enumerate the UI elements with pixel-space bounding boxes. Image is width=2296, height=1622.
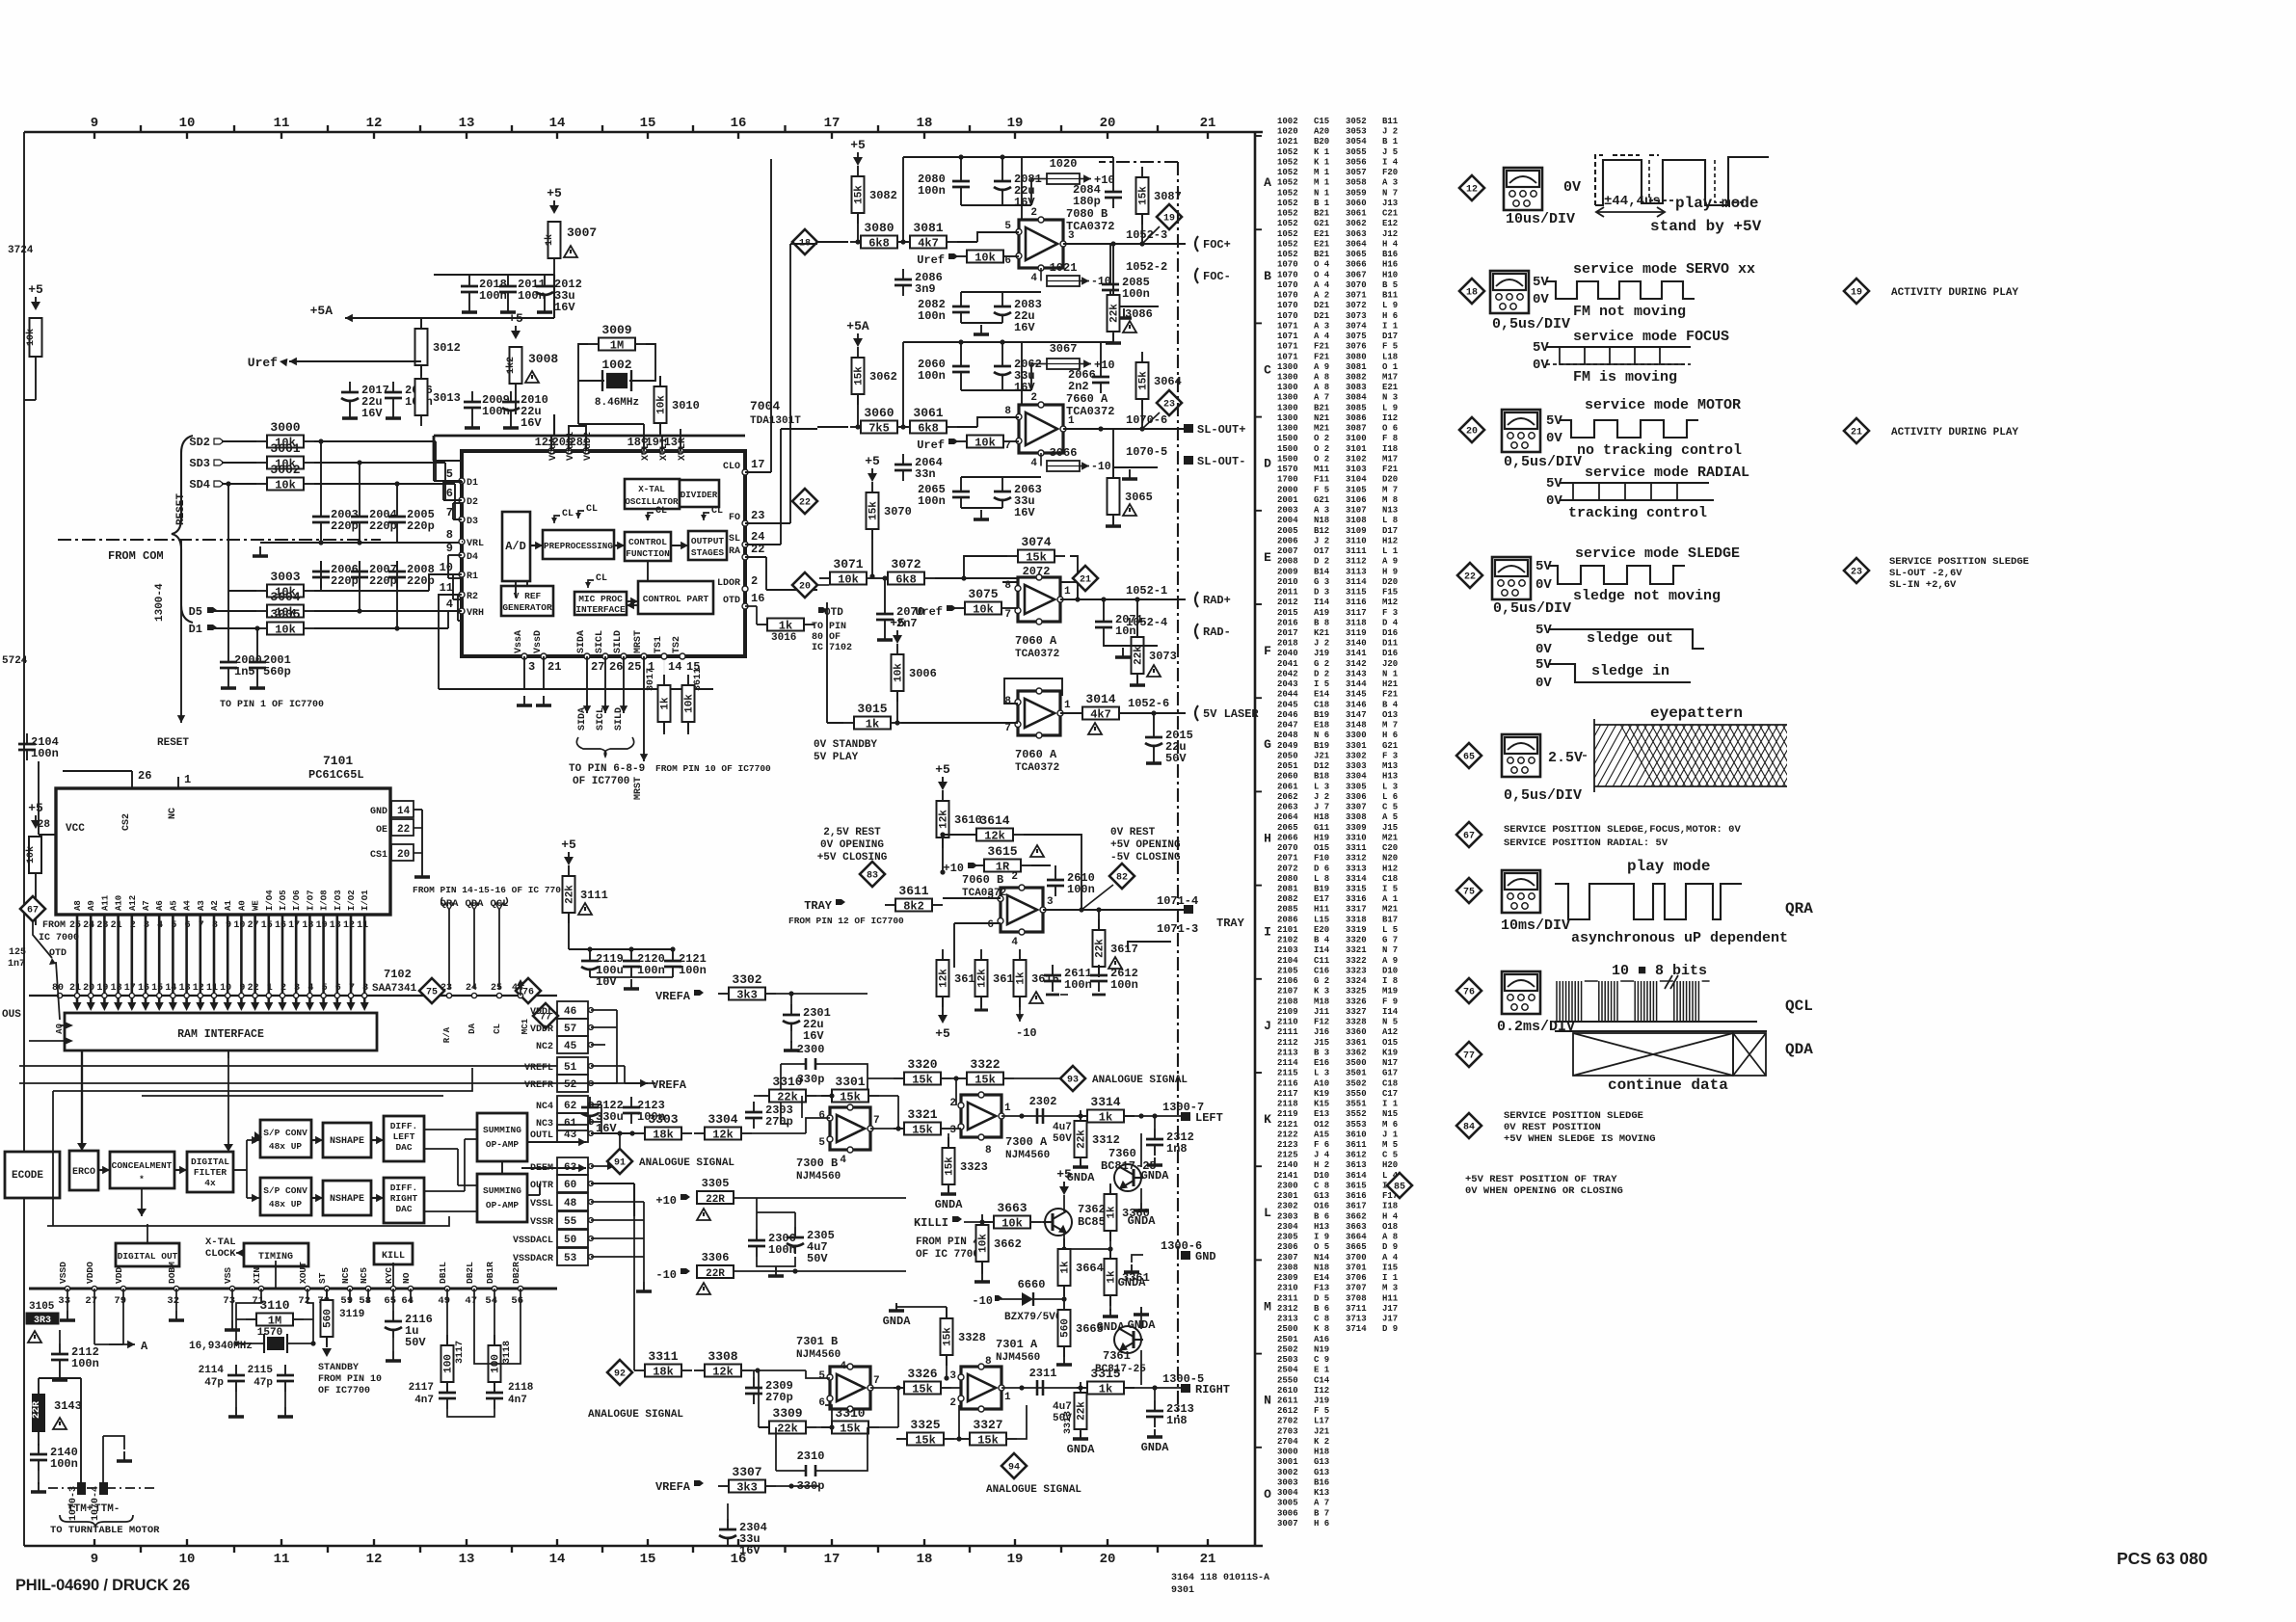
svg-text:16V: 16V [521,416,542,430]
svg-text:E18: E18 [1314,721,1329,731]
svg-text:8: 8 [985,1356,992,1368]
svg-text:220p: 220p [407,574,435,588]
svg-text:9: 9 [91,1552,98,1567]
capacitor 2016 100n [385,382,433,409]
svg-text:25: 25 [627,660,641,674]
svg-text:6: 6 [987,919,994,931]
svg-text:1070: 1070 [1277,280,1298,290]
svg-text:D 6: D 6 [1314,864,1329,873]
resistor 3013 vertical [415,368,461,426]
svg-text:OUTL: OUTL [530,1130,553,1141]
svg-text:G13: G13 [1314,1468,1329,1477]
svg-text:0,5us/DIV: 0,5us/DIV [1492,316,1570,332]
svg-text:5V LASER: 5V LASER [1203,707,1259,721]
diamond 91 analogue signal [607,1130,734,1174]
svg-text:2116: 2116 [1277,1078,1298,1088]
svg-text:A 2: A 2 [1314,291,1329,301]
svg-text:DIGITAL OUT: DIGITAL OUT [118,1251,178,1262]
svg-text:K13: K13 [1314,1488,1329,1498]
svg-text:VDDO: VDDO [85,1262,95,1284]
block NSHAPE left [323,1123,371,1157]
svg-text:A 5: A 5 [1382,812,1398,822]
svg-text:3082: 3082 [1346,373,1367,383]
svg-text:3113: 3113 [1346,567,1367,576]
svg-text:3006: 3006 [909,667,937,680]
svg-text:3327: 3327 [1346,1007,1367,1017]
svg-text:7660 A: 7660 A [1066,392,1108,406]
capacitor 2612 100n [1060,965,1138,995]
svg-text:B 6: B 6 [1314,1211,1329,1221]
svg-text:85: 85 [1394,1183,1405,1193]
block RAM INTERFACE [65,1013,377,1050]
svg-text:2125: 2125 [1277,1151,1298,1160]
resistor 3002 10k [256,463,314,492]
DAC block wires [19,1058,617,1289]
svg-text:2123: 2123 [1277,1140,1298,1150]
svg-text:23: 23 [751,509,764,522]
svg-text:OUS: OUS [2,1009,21,1021]
svg-text:1070-5: 1070-5 [1126,445,1167,459]
svg-text:N 1: N 1 [1382,670,1399,679]
svg-text:3305: 3305 [1346,782,1367,791]
capacitor ('2065', '2063') bottom caps [918,481,970,508]
svg-text:+10: +10 [655,1194,677,1208]
svg-text:I/O1: I/O1 [360,890,370,911]
svg-text:3300: 3300 [1346,731,1367,740]
svg-text:3075: 3075 [1346,332,1367,341]
svg-text:3k3: 3k3 [736,989,758,1002]
svg-text:1002: 1002 [1277,117,1298,126]
svg-text:1300: 1300 [1277,424,1298,434]
svg-text:VSSL: VSSL [530,1199,553,1210]
svg-text:F21: F21 [1314,342,1330,352]
svg-text:10k: 10k [974,252,996,265]
svg-text:3321: 3321 [1346,945,1367,955]
wires 7301A out [1001,1385,1186,1390]
svg-text:1570: 1570 [1277,465,1298,474]
svg-text:VSS: VSS [223,1267,233,1284]
svg-text:3106: 3106 [1346,495,1367,505]
svg-text:5: 5 [818,1137,825,1149]
svg-text:3115: 3115 [1346,588,1367,598]
svg-text:D10: D10 [1314,1171,1329,1181]
svg-text:7080 B: 7080 B [1066,207,1108,221]
svg-text:1070: 1070 [1277,291,1298,301]
svg-text:1k: 1k [866,718,879,731]
svg-text:O 4: O 4 [1314,260,1330,270]
svg-text:3105: 3105 [29,1301,55,1313]
connector 1300-7 LEFT [1152,1101,1222,1125]
svg-text:46: 46 [564,1006,576,1018]
svg-text:3056: 3056 [1346,158,1367,168]
svg-text:5724: 5724 [2,655,28,667]
svg-text:A5: A5 [169,900,178,911]
capacitor 2305 4u7 50V [757,1198,906,1276]
svg-text:H16: H16 [1382,260,1398,270]
svg-text:1500: 1500 [1277,455,1298,465]
svg-text:2502: 2502 [1277,1344,1298,1354]
svg-text:10k: 10k [1001,1217,1023,1231]
svg-text:D11: D11 [1382,639,1399,649]
svg-text:48x UP: 48x UP [269,1141,303,1152]
svg-text:A 1: A 1 [1382,894,1399,904]
svg-text:1k: 1k [1099,1383,1112,1396]
svg-text:3012: 3012 [433,341,461,355]
svg-text:PREPROCESSING: PREPROCESSING [544,541,613,551]
svg-text:J 2: J 2 [1382,127,1398,137]
svg-text:3072: 3072 [1346,301,1367,310]
svg-text:3053: 3053 [1346,127,1367,137]
svg-text:28: 28 [570,436,583,449]
svg-text:2704: 2704 [1277,1437,1298,1447]
svg-text:SERVICE POSITION SLEDGE,FOCUS,: SERVICE POSITION SLEDGE,FOCUS,MOTOR: 0V [1504,824,1741,836]
svg-text:±44,4us: ±44,4us [1604,194,1661,209]
svg-text:DB2R: DB2R [511,1262,521,1284]
wire input focus [817,241,848,243]
driver cluster RADIAL [792,454,1231,685]
svg-text:ANALOGUE SIGNAL: ANALOGUE SIGNAL [1092,1075,1188,1086]
svg-text:OTD: OTD [723,596,740,606]
svg-text:L15: L15 [1314,915,1329,924]
svg-text:80 OF: 80 OF [812,632,841,643]
svg-text:65: 65 [384,1295,396,1307]
svg-text:21: 21 [1200,116,1216,131]
svg-text:G 3: G 3 [1314,577,1329,587]
power +5A arrow [310,304,554,322]
op-amp 7660 A [1016,402,1066,456]
resistor 3310 15k [759,1370,898,1436]
svg-text:560: 560 [1060,1318,1072,1338]
svg-text:25: 25 [69,920,81,931]
svg-text:stand by +5V: stand by +5V [1650,218,1762,235]
svg-text:2046: 2046 [1277,710,1298,720]
svg-text:3108: 3108 [1346,516,1367,525]
svg-text:O 2: O 2 [1314,455,1329,465]
svg-text:N17: N17 [1382,1058,1398,1068]
wires IC7004 left connections [434,461,463,636]
svg-text:O 2: O 2 [1314,444,1329,454]
capacitor 2115 47p [248,1353,294,1417]
svg-text:M 6: M 6 [1382,1120,1398,1130]
svg-text:GENERATOR: GENERATOR [502,602,552,613]
svg-text:B21: B21 [1314,209,1330,219]
svg-text:3119: 3119 [1346,628,1367,638]
svg-text:D3: D3 [467,517,478,527]
svg-text:O12: O12 [1314,1120,1329,1130]
resistor 3001 10k [256,441,314,471]
svg-text:3314: 3314 [1090,1095,1120,1109]
svg-text:2611: 2611 [1277,1396,1298,1406]
svg-text:2005: 2005 [1277,526,1298,536]
svg-text:K 1: K 1 [1314,158,1330,168]
svg-text:100n: 100n [918,184,946,198]
svg-text:D: D [1264,457,1271,471]
capacitor 2116 1u 50V [385,1303,433,1361]
svg-text:4u7: 4u7 [1053,1122,1072,1133]
svg-text:3054: 3054 [1346,137,1367,146]
svg-text:2503: 2503 [1277,1355,1298,1365]
svg-text:7k5: 7k5 [868,422,890,436]
svg-text:23: 23 [96,920,108,931]
svg-text:83: 83 [867,871,878,882]
svg-text:1052-6: 1052-6 [1128,697,1169,710]
svg-text:8: 8 [212,920,218,931]
svg-text:3009: 3009 [601,323,631,337]
resistor 3308 12k [632,1133,806,1379]
svg-text:I 5: I 5 [1314,679,1329,689]
svg-text:NC5: NC5 [340,1267,351,1284]
svg-text:*: * [139,1174,145,1184]
wire OUTL to audio [629,1130,634,1135]
svg-text:1k: 1k [779,620,792,633]
wires digital out timing [147,1224,148,1243]
svg-text:3328: 3328 [958,1331,986,1344]
svg-text:3k3: 3k3 [736,1481,758,1495]
svg-text:DIFF.: DIFF. [390,1121,418,1131]
svg-text:1k2: 1k2 [505,357,517,374]
capacitor 2012 33u 16V [536,276,582,314]
svg-text:ERCO: ERCO [72,1167,95,1178]
svg-text:service mode MOTOR: service mode MOTOR [1585,397,1741,413]
resistor 3611b 10k vertical [682,675,696,732]
wires below RAM interface [82,1050,228,1058]
svg-text:TTM-: TTM- [94,1503,120,1515]
svg-text:15k: 15k [974,1074,996,1087]
svg-text:NSHAPE: NSHAPE [330,1194,364,1205]
svg-text:5: 5 [171,920,176,931]
svg-text:2110: 2110 [1277,1018,1298,1027]
svg-text:3073: 3073 [1149,650,1177,663]
legend item 65 eyepattern [1456,705,1828,804]
svg-text:3552: 3552 [1346,1109,1367,1119]
svg-text:3105: 3105 [1346,485,1367,494]
svg-text:+5: +5 [28,282,43,297]
svg-text:6: 6 [818,1397,825,1409]
svg-text:+5V REST POSITION OF TRAY: +5V REST POSITION OF TRAY [1465,1174,1617,1185]
svg-text:1300: 1300 [1277,393,1298,403]
svg-text:O16: O16 [1314,1202,1329,1211]
svg-text:DIGITAL: DIGITAL [191,1157,229,1167]
svg-text:3706: 3706 [1346,1273,1367,1283]
svg-text:B20: B20 [1314,137,1329,146]
svg-text:J 7: J 7 [1314,803,1329,812]
svg-text:BC817-25: BC817-25 [1101,1159,1157,1173]
svg-text:12: 12 [535,436,548,449]
svg-text:2051: 2051 [1277,761,1298,771]
svg-text:H 4: H 4 [1382,239,1399,249]
svg-text:3001: 3001 [270,441,300,456]
resistor 3321 15k [894,1107,951,1137]
svg-text:5: 5 [322,983,328,994]
svg-text:E17: E17 [1314,894,1329,904]
svg-text:3316: 3316 [1346,894,1367,904]
svg-text:VSSD: VSSD [58,1262,68,1284]
svg-text:9301: 9301 [1171,1585,1194,1596]
svg-text:B 3: B 3 [1314,1048,1329,1057]
svg-text:3071: 3071 [833,557,863,572]
capacitor 2300 330p [781,1043,868,1124]
svg-text:3307: 3307 [732,1465,761,1479]
svg-text:G 7: G 7 [1382,936,1398,945]
svg-text:2066: 2066 [1277,833,1298,842]
svg-text:SIDA: SIDA [576,630,587,653]
IC7102 bottom edge bus [29,1262,557,1307]
svg-text:0V OPENING: 0V OPENING [820,839,884,851]
svg-text:3061: 3061 [913,406,943,420]
svg-text:2008: 2008 [1277,557,1298,567]
svg-text:12k: 12k [712,1366,734,1379]
resistor 3307 3k3 vrefa [655,1465,819,1495]
svg-text:12k: 12k [977,969,989,988]
svg-text:14: 14 [668,660,681,674]
svg-text:RAD-: RAD- [1203,625,1231,639]
svg-text:CLOCK: CLOCK [205,1248,236,1260]
svg-text:3071: 3071 [1346,291,1367,301]
svg-text:B19: B19 [1314,741,1329,751]
svg-text:KILLI: KILLI [914,1216,948,1230]
svg-text:3005: 3005 [1277,1499,1298,1508]
parts list column 2 (part numbers and grid refs) [1346,117,1399,1334]
svg-text:M11: M11 [1314,465,1330,474]
svg-text:VREFR: VREFR [524,1080,553,1091]
svg-text:D2: D2 [467,497,478,508]
svg-text:A20: A20 [1314,127,1329,137]
svg-text:MC1: MC1 [521,1018,530,1034]
svg-text:K19: K19 [1314,1089,1329,1099]
svg-text:7: 7 [446,506,453,519]
svg-text:H18: H18 [1314,1448,1329,1457]
svg-text:1052: 1052 [1277,229,1298,239]
svg-text:67: 67 [1463,832,1475,842]
svg-text:RIGHT: RIGHT [390,1193,418,1204]
svg-text:VssA: VssA [514,630,524,653]
svg-text:A 3: A 3 [1314,506,1329,516]
svg-text:M21: M21 [1382,905,1399,915]
wires radial [935,556,1186,602]
IC7004 top pins [535,432,688,461]
svg-text:service mode SLEDGE: service mode SLEDGE [1575,545,1740,562]
svg-text:1: 1 [1064,700,1071,711]
svg-text:2501: 2501 [1277,1335,1298,1344]
capacitors 2003-2005 220p [312,506,359,533]
svg-text:3305: 3305 [702,1177,730,1190]
svg-text:SILD: SILD [614,707,625,731]
svg-text:I15: I15 [1382,1263,1398,1272]
svg-text:45: 45 [564,1041,577,1052]
svg-text:1: 1 [1004,1103,1011,1114]
capacitors 2006-2008 220p [312,561,359,588]
svg-text:3362: 3362 [1346,1048,1367,1057]
svg-text:D17: D17 [1382,332,1398,341]
svg-text:G17: G17 [1382,1069,1398,1078]
svg-text:2122: 2122 [1277,1130,1298,1139]
svg-text:XTLR: XTLR [678,438,688,461]
svg-text:IC 7000: IC 7000 [39,933,79,944]
svg-text:I/O3: I/O3 [334,890,343,911]
svg-text:3101: 3101 [1346,444,1367,454]
svg-text:48: 48 [564,1198,577,1210]
resistor 3119 560R vertical [318,1290,382,1396]
svg-text:270p: 270p [765,1115,793,1129]
svg-text:-10: -10 [1091,461,1111,473]
svg-text:J 2: J 2 [1314,639,1329,649]
IC7004 left pins [440,467,484,619]
svg-text:3326: 3326 [1346,997,1367,1006]
svg-text:+5: +5 [850,138,866,152]
svg-text:2060: 2060 [1277,772,1298,782]
svg-text:24: 24 [751,530,764,544]
wire focus output [1063,157,1186,247]
svg-text:7301 B: 7301 B [796,1335,838,1348]
svg-text:A1: A1 [224,900,233,911]
svg-text:DA: DA [467,1023,477,1033]
svg-text:A6: A6 [155,900,165,911]
svg-text:15k: 15k [1138,186,1150,205]
svg-text:2072: 2072 [1277,864,1298,873]
svg-text:H12: H12 [1382,536,1398,545]
svg-text:25: 25 [491,983,502,994]
svg-text:I14: I14 [1382,1007,1399,1017]
svg-text:N 3: N 3 [1382,393,1398,403]
svg-text:A 3: A 3 [1382,178,1398,188]
svg-text:2311: 2311 [1029,1367,1057,1380]
svg-text:3301: 3301 [1346,741,1367,751]
svg-text:3662: 3662 [1346,1211,1367,1221]
op-amp U7300B [796,1104,880,1183]
svg-text:3082: 3082 [869,189,897,202]
resistor 3074 15k feedback [1007,535,1065,565]
bus component wires below [60,1289,521,1344]
svg-text:CL: CL [493,1024,502,1034]
svg-text:G: G [1264,737,1271,752]
resistor 3303 18k [634,1112,692,1142]
svg-text:2310: 2310 [1277,1284,1298,1293]
svg-text:2303: 2303 [1277,1211,1298,1221]
svg-text:TTM+: TTM+ [67,1503,93,1515]
svg-text:7: 7 [199,920,204,931]
svg-text:-5V CLOSING: -5V CLOSING [1110,852,1181,864]
svg-text:F12: F12 [1314,1018,1329,1027]
resistor 3320 15k [894,1057,951,1087]
svg-text:N 7: N 7 [1382,188,1398,198]
svg-text:62: 62 [564,1101,576,1112]
transistor Q7361 BC817-25 [1089,1307,1156,1385]
svg-text:3003: 3003 [270,570,300,584]
block DIFF RIGHT DAC [384,1178,424,1223]
svg-text:2064: 2064 [1277,812,1298,822]
svg-text:2310: 2310 [797,1449,825,1463]
wire Uref arrow [280,359,421,381]
svg-text:8: 8 [446,528,453,542]
svg-text:1700: 1700 [1277,475,1298,485]
svg-text:3061: 3061 [1346,209,1367,219]
svg-text:DIFF.: DIFF. [390,1183,418,1193]
svg-text:100n: 100n [918,309,946,323]
svg-text:94: 94 [1008,1463,1020,1474]
svg-text:4: 4 [446,598,453,611]
svg-text:C18: C18 [1314,700,1329,709]
resistor 3325 15k [896,1418,954,1448]
svg-text:N21: N21 [1314,413,1330,423]
svg-text:100: 100 [443,1354,455,1373]
block S/P CONV left [260,1120,311,1157]
svg-text:3073: 3073 [1346,311,1367,321]
power +5 resistor 3006 [890,616,905,644]
svg-text:22k: 22k [777,1423,798,1436]
svg-text:12k: 12k [712,1129,734,1142]
svg-text:M13: M13 [1382,761,1398,771]
svg-text:48x UP: 48x UP [269,1199,303,1210]
